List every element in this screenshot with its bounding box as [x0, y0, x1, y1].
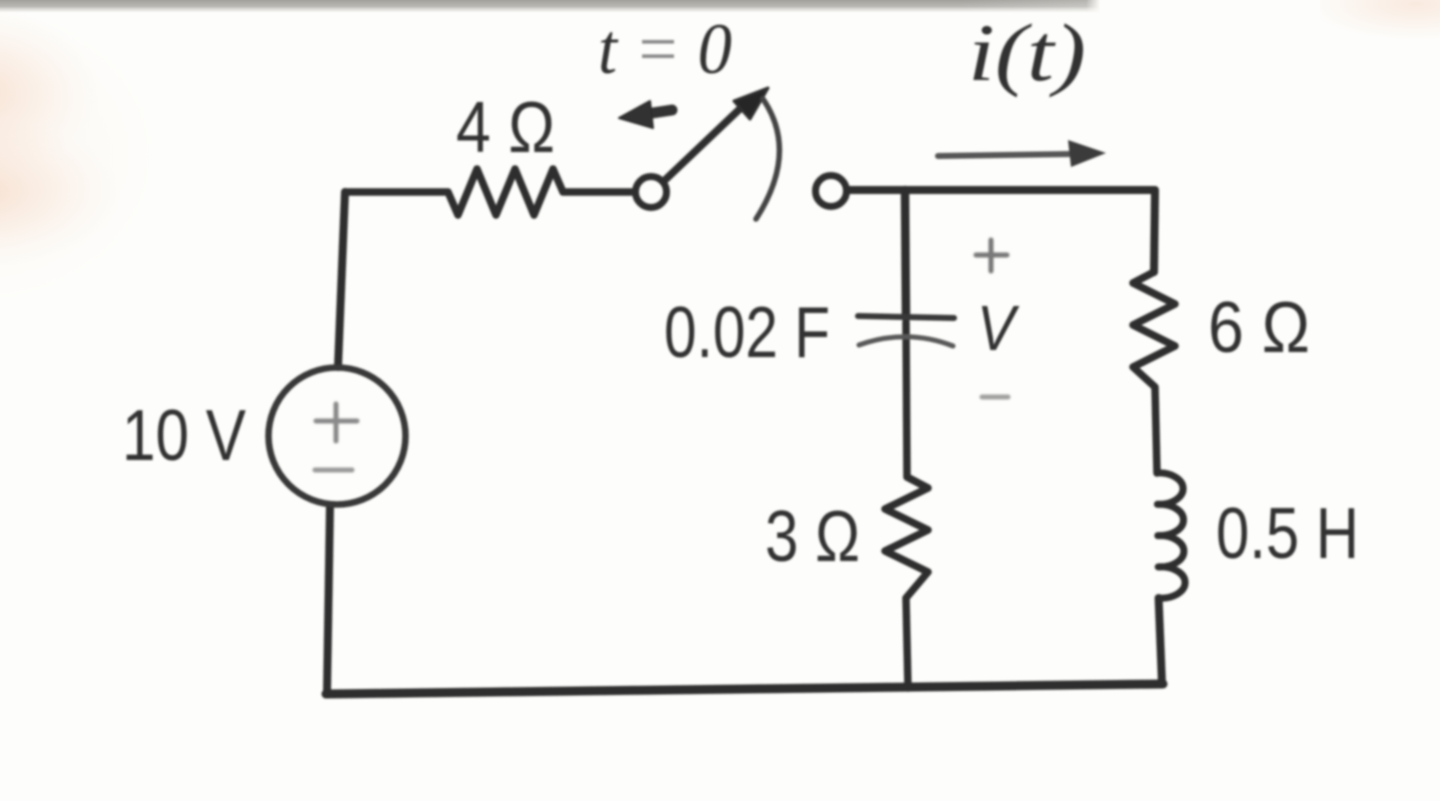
svg-text:0.5 H: 0.5 H: [1216, 494, 1359, 574]
svg-text:3 Ω: 3 Ω: [765, 497, 860, 577]
svg-text:i(t): i(t): [968, 7, 1086, 98]
svg-text:t = 0: t = 0: [598, 9, 732, 89]
svg-text:V: V: [977, 292, 1020, 364]
svg-text:0.02 F: 0.02 F: [664, 293, 830, 373]
svg-text:10 V: 10 V: [122, 396, 246, 476]
svg-text:4 Ω: 4 Ω: [456, 88, 555, 168]
svg-text:6 Ω: 6 Ω: [1208, 288, 1310, 368]
